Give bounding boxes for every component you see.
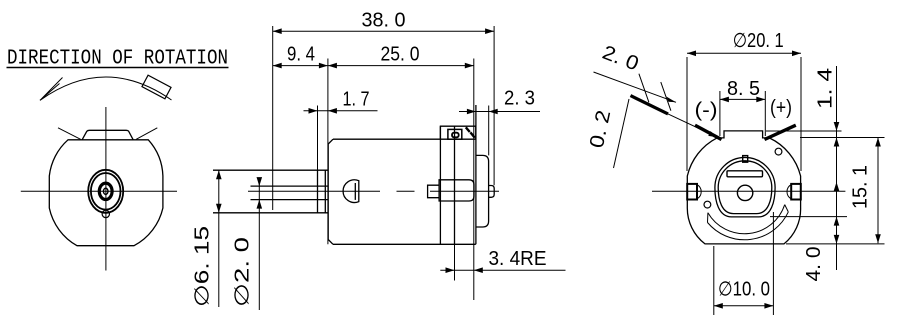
commutator body <box>439 180 474 201</box>
rear crescent spring <box>708 205 789 240</box>
side view centerline <box>248 190 499 192</box>
can to endcap joint line <box>454 126 456 244</box>
svg-text:∅6. 15: ∅6. 15 <box>192 226 214 307</box>
dimension dia6.15 <box>192 170 222 307</box>
dimension dia20.1 <box>687 30 801 171</box>
rear view can outline <box>687 131 800 244</box>
dimension dia2.0 <box>232 177 263 310</box>
terminal callout 0.2 <box>586 99 629 168</box>
terminal callout 2.0 <box>594 42 677 111</box>
svg-text:25. 0: 25. 0 <box>381 44 420 66</box>
shaft outline / dia2 extension lines <box>251 186 329 200</box>
svg-text:(+): (+) <box>770 97 792 119</box>
front view horizontal centerline <box>21 190 177 192</box>
front bearing boss inner ring <box>91 173 121 210</box>
title DIRECTION OF ROTATION <box>7 47 229 71</box>
motor body front face / extension line <box>327 59 329 245</box>
dimension 8.5 <box>720 78 765 136</box>
can end crimp line <box>439 126 441 244</box>
rear left terminal <box>695 125 722 139</box>
dimension 9.4 <box>273 44 328 69</box>
rear key tab <box>743 156 748 163</box>
dia6.15 boss extension lines <box>213 170 328 213</box>
svg-text:9. 4: 9. 4 <box>287 44 315 66</box>
dimension 1.7 <box>304 88 378 170</box>
dimension 15.1 dim line <box>850 138 881 244</box>
boss front face <box>317 170 319 213</box>
svg-text:∅2. 0: ∅2. 0 <box>232 237 254 307</box>
svg-text:1. 7: 1. 7 <box>343 88 370 110</box>
front bearing dome <box>343 180 359 203</box>
front shaft ring <box>99 183 112 199</box>
endcap face line / 25.0 extension <box>473 59 475 245</box>
front view vertical centerline <box>105 107 107 271</box>
rear small hole left <box>704 201 711 208</box>
dimension dia10.0 <box>714 212 774 315</box>
terminal housing bump <box>440 126 475 139</box>
rear bearing hole <box>737 185 752 200</box>
svg-text:2. 3: 2. 3 <box>504 88 535 110</box>
svg-text:3. 4RE: 3. 4RE <box>489 248 547 270</box>
rear shaft nub <box>489 186 495 198</box>
front shaft hole <box>103 188 108 194</box>
rear view horizontal centerline <box>652 190 845 192</box>
svg-text:1. 4: 1. 4 <box>815 68 837 109</box>
svg-text:∅10. 0: ∅10. 0 <box>718 279 770 301</box>
front view body outline <box>49 140 163 246</box>
commutator neck <box>428 185 440 198</box>
rear right keyway <box>787 184 801 200</box>
front view right terminal whisker <box>136 128 157 140</box>
svg-text:(-): (-) <box>695 100 718 122</box>
rear boss <box>476 155 489 227</box>
terminal plate and leader <box>631 96 718 138</box>
motor body outline <box>328 139 476 244</box>
svg-text:38. 0: 38. 0 <box>362 10 406 32</box>
dimension 3.4RE <box>440 244 565 300</box>
dimension 25.0 <box>328 44 474 69</box>
endcap face second line <box>475 105 477 244</box>
front small hole below boss <box>102 210 109 217</box>
rear bore outer wall <box>715 157 775 216</box>
dimension 1.4 and 4.0 dim line <box>803 66 839 282</box>
front bearing boss outer ring <box>88 170 123 213</box>
shaft tip / 38 and 9.4 extension line <box>272 26 274 210</box>
dimension 38.0 <box>273 10 494 186</box>
rear small hole top right <box>775 148 782 155</box>
svg-text:15. 1: 15. 1 <box>850 165 872 209</box>
front view left terminal whisker <box>58 128 81 140</box>
svg-text:∅20. 1: ∅20. 1 <box>733 30 784 52</box>
rear slot bar <box>727 171 763 177</box>
boss inner face line <box>324 170 326 213</box>
rear right terminal <box>765 125 796 139</box>
svg-text:4. 0: 4. 0 <box>803 247 825 282</box>
dimension 2.3 <box>459 88 540 156</box>
dimension 1.4 / 15.1 / 4.0 shared extension lines <box>766 131 885 244</box>
svg-text:8. 5: 8. 5 <box>727 78 760 100</box>
rear bore inner wall <box>718 161 772 214</box>
rotation arrow arc <box>40 75 172 100</box>
front view top bump <box>82 130 133 140</box>
rear left keyway <box>687 184 701 200</box>
